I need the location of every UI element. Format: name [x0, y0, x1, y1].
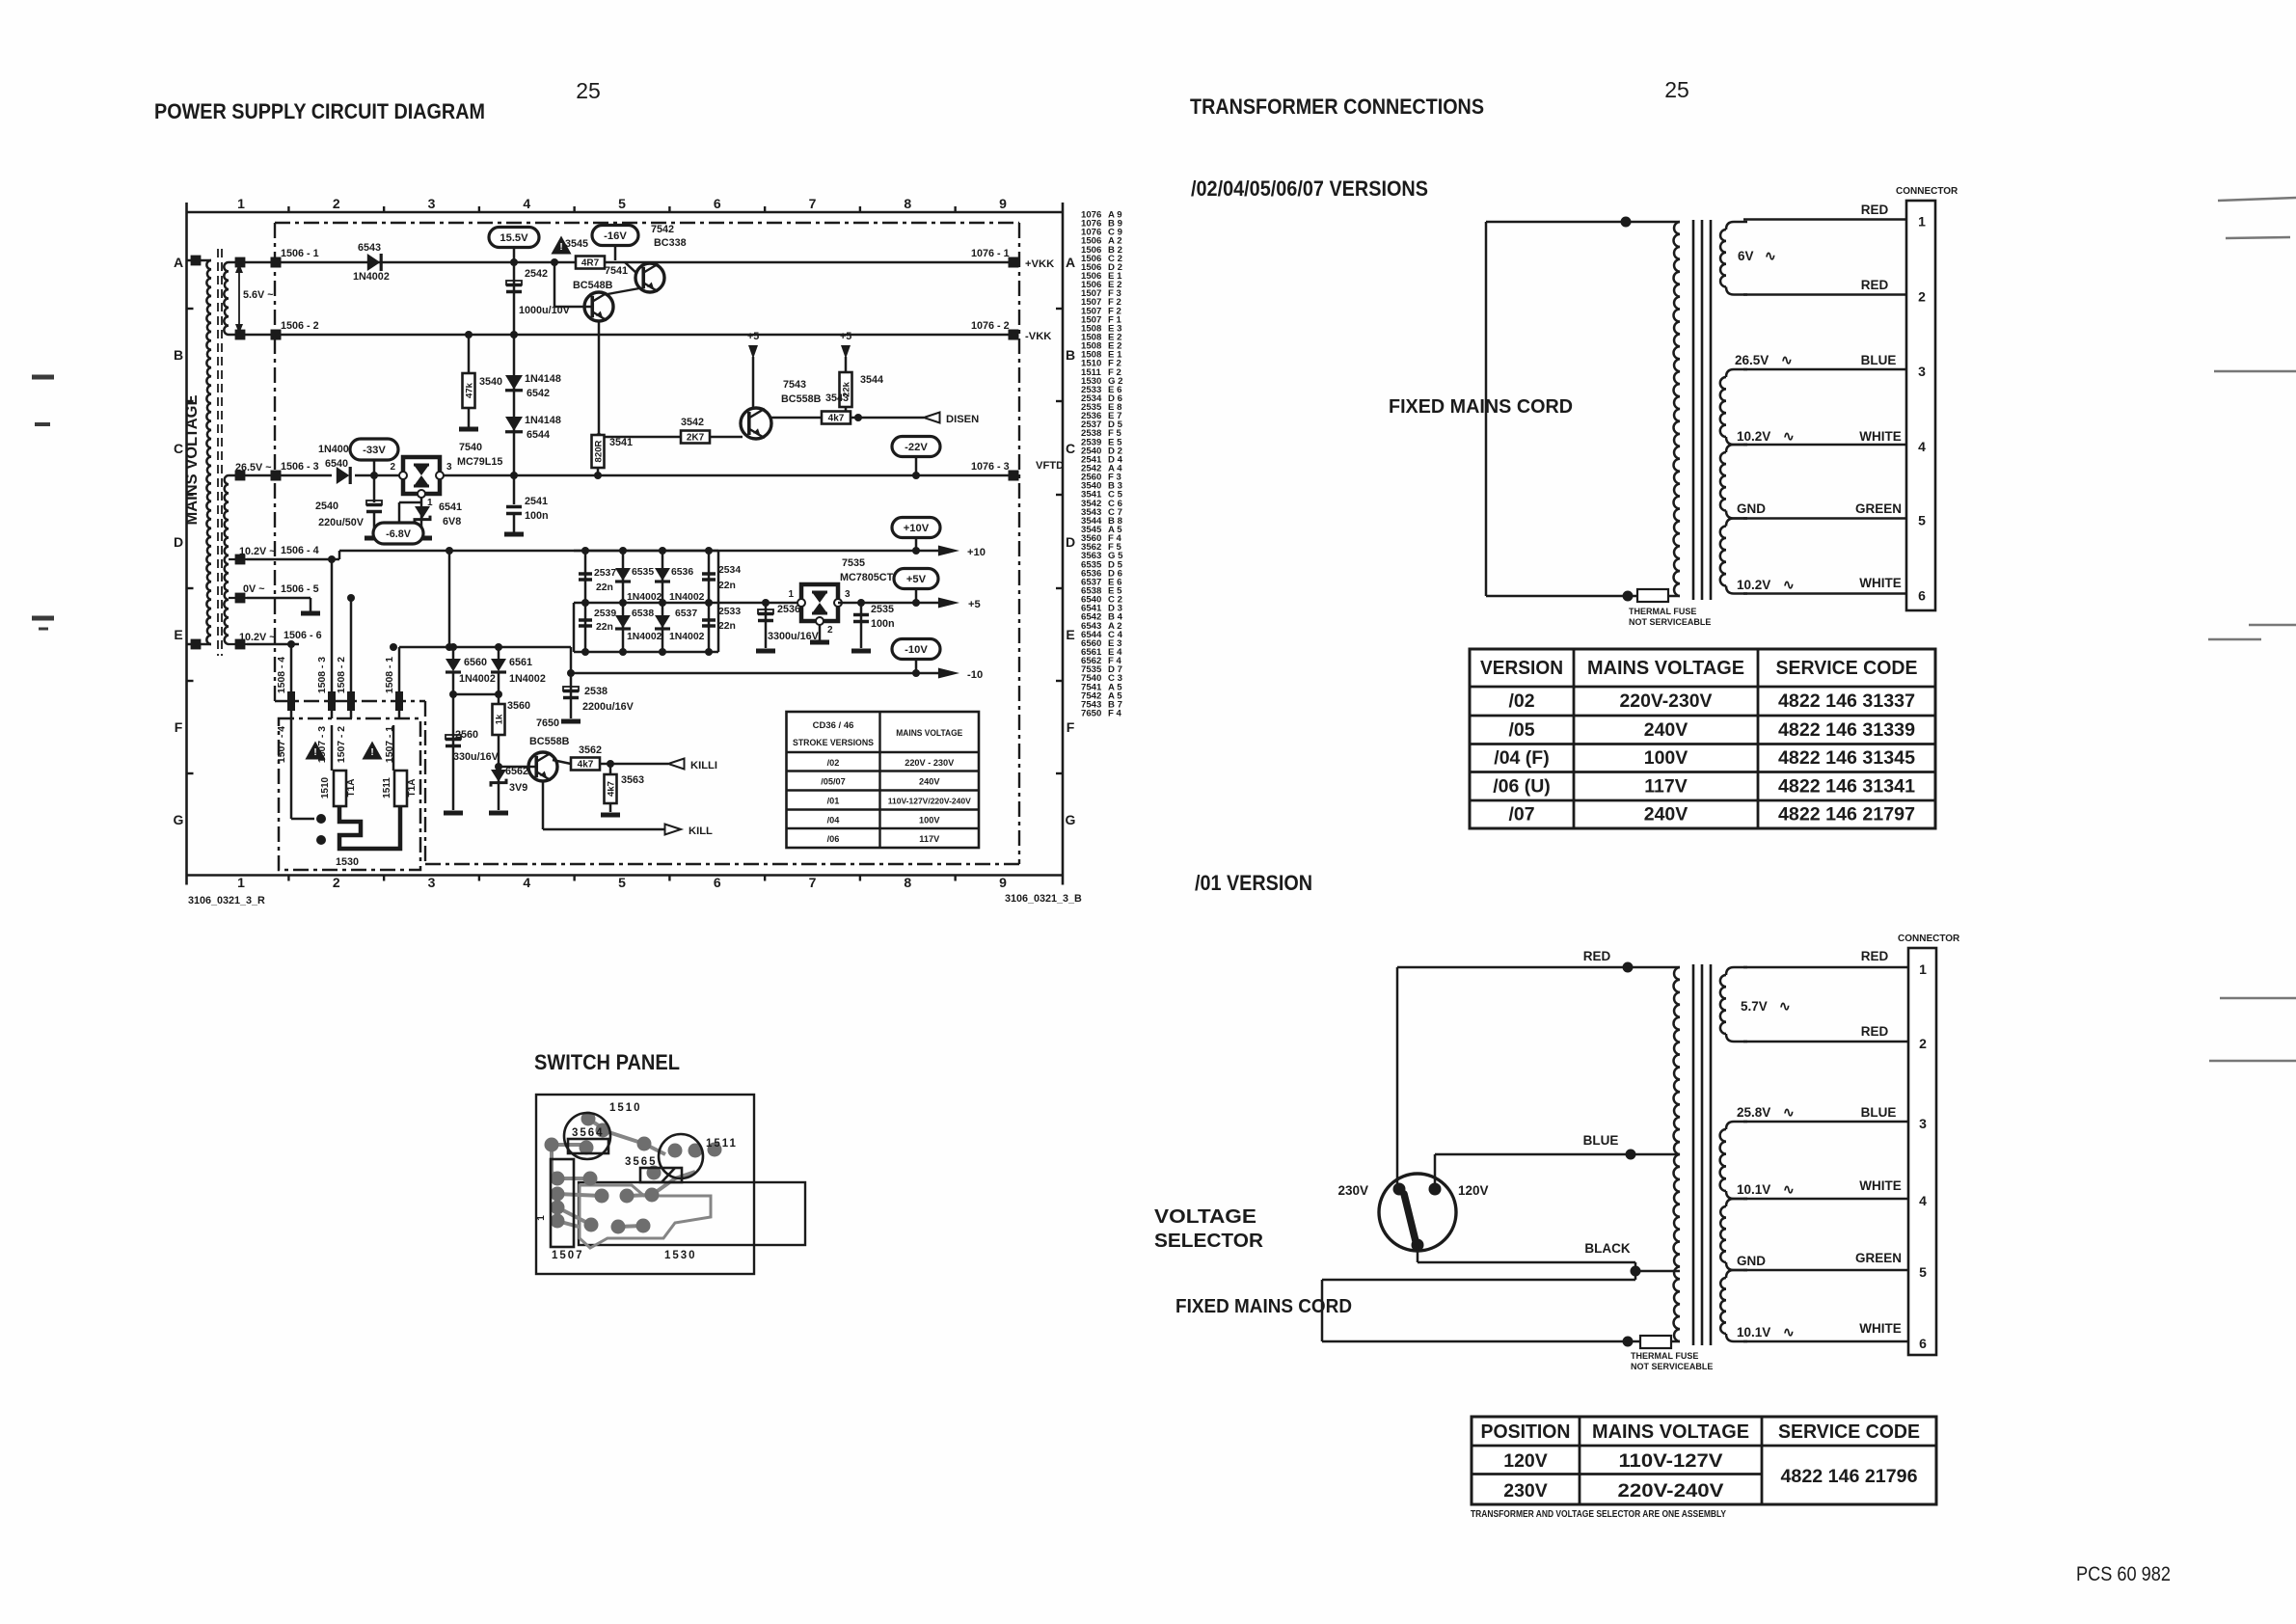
KILL output [543, 781, 713, 837]
svg-text:/02: /02 [1508, 690, 1534, 712]
svg-text:1507: 1507 [552, 1250, 584, 1261]
svg-text:117V: 117V [919, 834, 940, 844]
svg-text:120V: 120V [1458, 1183, 1489, 1198]
voltage callout 15.5V [489, 228, 539, 263]
svg-text:3106_0321_3_B: 3106_0321_3_B [1005, 893, 1082, 905]
svg-text:4822 146 31345: 4822 146 31345 [1778, 747, 1915, 769]
warning triangle row A [551, 235, 571, 254]
DISEN output [851, 413, 979, 426]
svg-text:2533: 2533 [718, 607, 741, 617]
svg-text:7542: 7542 [651, 224, 674, 235]
svg-text:1530: 1530 [664, 1250, 697, 1261]
svg-text:3: 3 [428, 875, 436, 890]
svg-text:/06 (U): /06 (U) [1493, 775, 1551, 797]
svg-text:6543: 6543 [358, 242, 381, 254]
thermal fuse (top) [1629, 589, 1711, 627]
svg-text:2200u/16V: 2200u/16V [582, 701, 635, 713]
svg-text:/07: /07 [1508, 804, 1534, 826]
svg-text:THERMAL FUSE: THERMAL FUSE [1631, 1351, 1698, 1361]
svg-text:BLUE: BLUE [1861, 353, 1897, 367]
switch contacts 1530 [291, 718, 400, 849]
svg-text:D: D [174, 534, 183, 550]
svg-text:+10: +10 [967, 547, 986, 558]
svg-text:22n: 22n [596, 622, 613, 633]
svg-text:1N4002: 1N4002 [669, 632, 705, 642]
svg-text:MAINS VOLTAGE: MAINS VOLTAGE [1592, 1421, 1749, 1443]
svg-text:0V ~: 0V ~ [243, 583, 265, 595]
transistor 7541 BC548B [551, 258, 639, 321]
svg-text:SELECTOR: SELECTOR [1154, 1231, 1264, 1252]
diode 6560 1N4002 [446, 657, 496, 685]
svg-text:BLUE: BLUE [1583, 1133, 1619, 1148]
svg-text:CD36 / 46: CD36 / 46 [813, 720, 854, 731]
svg-text:3564: 3564 [572, 1127, 605, 1139]
svg-text:BC558B: BC558B [529, 736, 570, 747]
svg-text:3: 3 [1919, 1116, 1927, 1131]
svg-text:1: 1 [536, 1215, 547, 1221]
svg-text:7543: 7543 [783, 379, 806, 391]
svg-text:3540: 3540 [479, 376, 502, 388]
svg-text:240V: 240V [919, 777, 940, 787]
voltage callout -6.8V [373, 523, 423, 544]
voltage callout +10V [892, 518, 940, 555]
svg-text:10.1V: 10.1V [1737, 1325, 1770, 1340]
svg-text:7535: 7535 [842, 557, 865, 569]
warning triangle fuse 1 [305, 741, 325, 759]
resistor 3545 4R7 [565, 238, 605, 269]
svg-text:26.5V ~: 26.5V ~ [235, 462, 272, 474]
svg-text:/02: /02 [827, 758, 840, 768]
5.6V measurement arrow [235, 263, 274, 334]
svg-text:4822 146 31341: 4822 146 31341 [1778, 775, 1915, 797]
svg-text:MAINS VOLTAGE: MAINS VOLTAGE [1587, 657, 1744, 679]
svg-text:4: 4 [523, 875, 530, 890]
voltage callout -33V [350, 439, 398, 479]
switch panel pcb outline [536, 1095, 754, 1274]
switch panel right outline rectangle [579, 1182, 805, 1245]
svg-text:5.7V: 5.7V [1741, 999, 1768, 1014]
svg-text:!: ! [559, 242, 562, 253]
svg-text:WHITE: WHITE [1859, 1178, 1902, 1193]
svg-text:7541: 7541 [605, 265, 628, 277]
svg-text:4822 146 21797: 4822 146 21797 [1778, 804, 1915, 826]
svg-text:2534: 2534 [718, 565, 741, 576]
svg-text:100n: 100n [525, 510, 549, 522]
wires 1508-4..1508-1 to mains switch [277, 555, 403, 718]
diode 6538 1N4002 [615, 609, 662, 642]
resistor 3543 4k7 [770, 392, 851, 424]
svg-text:5: 5 [618, 875, 626, 890]
resistor 3541 820R [592, 435, 634, 479]
svg-text:3563: 3563 [621, 774, 644, 786]
svg-text:220V-240V: 220V-240V [1618, 1480, 1724, 1502]
svg-text:VFTD: VFTD [1036, 460, 1064, 472]
zener 6541 6V8 [399, 498, 462, 538]
svg-text:MC7805CT: MC7805CT [840, 572, 894, 583]
svg-text:2: 2 [333, 196, 340, 211]
diode 6544 1N4148 [505, 415, 561, 441]
jumper circle 1510 [564, 1102, 642, 1159]
thermal fuse (/01) [1631, 1336, 1713, 1371]
svg-text:-VKK: -VKK [1025, 331, 1051, 342]
svg-text:3545: 3545 [565, 238, 588, 250]
svg-text:6: 6 [714, 875, 721, 890]
svg-text:9: 9 [999, 196, 1007, 211]
svg-text:3106_0321_3_R: 3106_0321_3_R [188, 895, 265, 907]
capacitor 2539 22n [579, 609, 616, 633]
transistor 7543 BC558B [741, 379, 822, 439]
svg-text:WHITE: WHITE [1859, 429, 1902, 444]
schematic frame border [187, 203, 1064, 885]
transistor 7650 BC558B [499, 717, 570, 781]
wire riser to diode pump [446, 547, 453, 647]
svg-text:2536: 2536 [777, 604, 800, 615]
voltage callout +5V [894, 569, 938, 608]
svg-text:6V8: 6V8 [443, 516, 461, 528]
svg-text:1506 - 6: 1506 - 6 [284, 630, 322, 641]
secondary windings (/01) [1720, 967, 1747, 1341]
svg-text:7: 7 [809, 196, 817, 211]
svg-text:6: 6 [714, 196, 721, 211]
svg-text:2K7: 2K7 [687, 433, 705, 444]
svg-text:5: 5 [618, 196, 626, 211]
jumper circle 1511 [659, 1134, 738, 1178]
svg-text:3: 3 [428, 196, 436, 211]
label VOLTAGE SELECTOR [1154, 1206, 1264, 1252]
svg-text:6560: 6560 [464, 657, 487, 668]
svg-text:1N4002: 1N4002 [627, 632, 662, 642]
+5 rail output [838, 598, 981, 610]
regulator 7535 MC7805CT [760, 557, 894, 642]
svg-text:4: 4 [1918, 439, 1926, 454]
svg-text:BLUE: BLUE [1861, 1105, 1897, 1120]
svg-text:26.5V: 26.5V [1735, 353, 1769, 367]
capacitor 2560 330u/16V [444, 694, 500, 813]
svg-text:10.2V ~: 10.2V ~ [239, 546, 276, 557]
component 3565 [625, 1156, 682, 1182]
svg-text:SERVICE CODE: SERVICE CODE [1776, 657, 1918, 679]
scan margin artifacts [32, 198, 2296, 1061]
svg-text:F: F [1067, 719, 1075, 735]
svg-text:4R7: 4R7 [581, 258, 600, 269]
svg-text:MAINS VOLTAGE: MAINS VOLTAGE [183, 394, 201, 525]
transformer core dashed separator [218, 249, 222, 656]
svg-text:15.5V: 15.5V [500, 232, 528, 244]
wire rail 1506-2 (-VKK row B) [247, 320, 1051, 342]
svg-text:7: 7 [809, 875, 817, 890]
svg-text:110V-127V/220V-240V: 110V-127V/220V-240V [888, 798, 972, 806]
svg-text:1N4002: 1N4002 [627, 592, 662, 603]
svg-text:22n: 22n [718, 621, 736, 632]
svg-text:MC79L15: MC79L15 [457, 456, 502, 468]
svg-text:4822 146 31339: 4822 146 31339 [1778, 719, 1915, 741]
KILLI output [600, 759, 717, 772]
voltage callout -10V [892, 639, 940, 678]
svg-text:-6.8V: -6.8V [386, 528, 412, 540]
svg-text:∿: ∿ [1765, 248, 1776, 263]
svg-text:E: E [174, 627, 182, 642]
svg-text:220u/50V: 220u/50V [318, 517, 365, 528]
diode 6535 1N4002 [615, 567, 662, 603]
svg-text:FIXED MAINS CORD: FIXED MAINS CORD [1389, 396, 1573, 418]
capacitor 2534 22n [702, 565, 741, 591]
svg-text:-10: -10 [967, 669, 983, 681]
svg-text:820R: 820R [593, 440, 604, 462]
svg-text:+5: +5 [747, 331, 759, 342]
table positions/service code (/01) [1472, 1417, 1936, 1504]
svg-text:1: 1 [1919, 961, 1927, 977]
svg-text:PCS 60 982: PCS 60 982 [2076, 1563, 2171, 1585]
svg-text:+5: +5 [840, 331, 851, 342]
svg-text:/05/07: /05/07 [821, 777, 846, 787]
svg-text:1N4002: 1N4002 [459, 673, 496, 685]
svg-text:1N4002: 1N4002 [509, 673, 546, 685]
voltage callout -16V [592, 226, 638, 261]
fixed mains cord loop (top transformer) [1486, 217, 1680, 602]
svg-text:!: ! [370, 747, 373, 758]
svg-text:B: B [174, 347, 183, 363]
svg-text:1076 - 3: 1076 - 3 [971, 461, 1010, 473]
svg-text:RED: RED [1861, 278, 1889, 292]
svg-text:1N4148: 1N4148 [525, 373, 561, 385]
primary winding (top transformer) [1674, 222, 1681, 596]
svg-text:1N4002: 1N4002 [353, 271, 390, 283]
svg-text:MAINS VOLTAGE: MAINS VOLTAGE [896, 728, 962, 739]
svg-text:1076 - 2: 1076 - 2 [971, 320, 1010, 332]
svg-text:RED: RED [1583, 949, 1611, 963]
svg-text:4k7: 4k7 [828, 414, 845, 424]
svg-text:6535: 6535 [632, 567, 654, 578]
svg-text:∿: ∿ [1783, 1324, 1795, 1340]
svg-text:BLACK: BLACK [1584, 1241, 1630, 1256]
svg-text:1506 - 4: 1506 - 4 [281, 545, 319, 556]
svg-text:110V-127V: 110V-127V [1619, 1450, 1723, 1472]
svg-text:2: 2 [333, 875, 340, 890]
svg-text:6541: 6541 [439, 501, 462, 513]
zener 6562 3V9 [489, 763, 528, 813]
svg-text:100n: 100n [871, 618, 895, 630]
svg-text:∿: ∿ [1783, 428, 1795, 444]
svg-text:∿: ∿ [1783, 577, 1795, 592]
svg-text:3: 3 [446, 462, 452, 473]
resistor 3544 22k with +5 [840, 331, 884, 418]
svg-text:6537: 6537 [675, 609, 697, 619]
svg-text:7540: 7540 [459, 442, 482, 453]
svg-text:2560: 2560 [455, 729, 478, 741]
svg-text:3: 3 [845, 589, 851, 600]
svg-text:/05: /05 [1508, 719, 1534, 741]
svg-text:/04 (F): /04 (F) [1494, 747, 1549, 769]
fuse 1510 T1A [320, 725, 357, 806]
capacitor 2537 22n [579, 568, 616, 593]
svg-text:220V-230V: 220V-230V [1620, 690, 1713, 712]
wire BLACK (/01) [1418, 1241, 1680, 1277]
diode 6540 1N4004 [318, 444, 355, 484]
svg-text:C: C [174, 441, 183, 456]
wire 1506-5 (0V) with ground [247, 583, 320, 613]
svg-text:1510: 1510 [320, 776, 331, 798]
svg-text:240V: 240V [1644, 719, 1688, 741]
svg-text:10.1V: 10.1V [1737, 1182, 1770, 1197]
table versions/service codes [1470, 649, 1935, 828]
svg-text:1076 - 1: 1076 - 1 [971, 248, 1010, 259]
transformer core (/01) [1693, 964, 1711, 1345]
voltage callout -22V [892, 437, 940, 480]
svg-text:240V: 240V [1644, 804, 1688, 826]
svg-text:NOT SERVICEABLE: NOT SERVICEABLE [1631, 1362, 1713, 1371]
svg-text:C: C [1066, 441, 1075, 456]
capacitor 2535 100n [851, 599, 895, 651]
svg-text:+VKK: +VKK [1025, 258, 1054, 270]
resistor 3560 1k [493, 694, 531, 767]
diode 6542 1N4148 [505, 331, 561, 475]
svg-text:GND: GND [1737, 501, 1766, 516]
svg-text:5: 5 [1918, 513, 1926, 528]
svg-text:RED: RED [1861, 949, 1889, 963]
svg-text:5: 5 [1919, 1264, 1927, 1280]
connector box (top) [1896, 186, 1958, 610]
svg-text:1506 - 2: 1506 - 2 [281, 320, 319, 332]
svg-text:220V - 230V: 220V - 230V [905, 758, 955, 768]
secondary winding B (26.5V tapped) [224, 471, 247, 650]
svg-text:1508 - 2: 1508 - 2 [337, 657, 347, 693]
svg-text:BC558B: BC558B [781, 393, 822, 405]
svg-text:2: 2 [390, 462, 395, 473]
secondary windings (top) [1720, 222, 1747, 594]
svg-text:/02/04/05/06/07 VERSIONS: /02/04/05/06/07 VERSIONS [1191, 176, 1428, 201]
transformer T mains primary winding [187, 256, 212, 650]
ruler column numbers bottom [237, 875, 1007, 890]
svg-text:CONNECTOR: CONNECTOR [1898, 934, 1960, 944]
svg-text:GREEN: GREEN [1855, 501, 1902, 516]
svg-text:25: 25 [1664, 77, 1689, 102]
svg-text:6540: 6540 [325, 458, 348, 470]
-10 rail row E [571, 668, 983, 681]
svg-text:POSITION: POSITION [1481, 1421, 1571, 1443]
pcb copper traces [552, 1119, 711, 1248]
svg-text:E: E [1066, 627, 1074, 642]
svg-text:VOLTAGE: VOLTAGE [1154, 1206, 1256, 1228]
resistor 3562 4k7 [553, 744, 602, 771]
svg-text:2542: 2542 [525, 268, 548, 280]
svg-text:1508 - 1: 1508 - 1 [385, 657, 395, 693]
svg-text:1506 - 5: 1506 - 5 [281, 583, 319, 595]
svg-text:10.2V: 10.2V [1737, 578, 1770, 592]
svg-text:7650F 4: 7650F 4 [1081, 709, 1122, 719]
svg-text:KILLI: KILLI [690, 760, 717, 771]
svg-text:3V9: 3V9 [509, 782, 527, 794]
svg-text:6538: 6538 [632, 609, 654, 619]
transformer core (top) [1693, 220, 1711, 600]
svg-text:F: F [175, 719, 183, 735]
svg-text:NOT SERVICEABLE: NOT SERVICEABLE [1629, 617, 1711, 627]
svg-text:1N4148: 1N4148 [525, 415, 561, 426]
svg-text:B: B [1066, 347, 1075, 363]
svg-text:KILL: KILL [689, 826, 713, 837]
svg-text:100V: 100V [919, 815, 940, 825]
svg-text:∿: ∿ [1783, 1104, 1795, 1120]
svg-text:RED: RED [1861, 203, 1889, 217]
svg-text:1: 1 [237, 875, 245, 890]
svg-text:+5: +5 [968, 599, 981, 610]
svg-text:330u/16V: 330u/16V [453, 751, 500, 763]
svg-text:DISEN: DISEN [946, 414, 979, 425]
svg-text:22n: 22n [596, 582, 613, 593]
capacitor 2538 2200u/16V [561, 669, 635, 721]
svg-text:2540: 2540 [315, 501, 338, 512]
wire 1506-4 row D [247, 545, 339, 559]
resistor 3540 47k with ground [459, 331, 502, 429]
wire 7541 emitter to 820R [598, 321, 601, 434]
svg-text:THERMAL FUSE: THERMAL FUSE [1629, 607, 1696, 616]
row letters left [174, 255, 194, 827]
ruler column numbers top [237, 196, 1007, 212]
secondary winding A (5.6V) [224, 257, 247, 340]
svg-text:G: G [1066, 812, 1076, 827]
svg-text:2: 2 [1919, 1036, 1927, 1051]
svg-text:2538: 2538 [584, 686, 608, 697]
svg-text:BC338: BC338 [654, 237, 687, 249]
svg-text:STROKE VERSIONS: STROKE VERSIONS [793, 738, 874, 748]
svg-text:TRANSFORMER CONNECTIONS: TRANSFORMER CONNECTIONS [1190, 95, 1484, 119]
mains switch assembly dash-dot box 1530 [279, 718, 420, 870]
svg-text:1511: 1511 [706, 1138, 738, 1150]
svg-text:1: 1 [237, 196, 245, 211]
capacitor 2540 220u/50V [315, 475, 384, 538]
svg-text:WHITE: WHITE [1859, 576, 1902, 590]
regulator 7540 MC79L15 [390, 442, 502, 508]
svg-text:230V: 230V [1503, 1480, 1548, 1502]
diode 6561 1N4002 [491, 657, 546, 685]
svg-text:25: 25 [576, 78, 601, 103]
svg-text:∿: ∿ [1781, 352, 1793, 367]
winding labels (/01) [1737, 949, 1902, 1340]
svg-text:1506 - 1: 1506 - 1 [281, 248, 319, 259]
svg-text:1k: 1k [494, 714, 504, 724]
svg-text:T1A: T1A [407, 779, 418, 798]
capacitor 2541 100n [504, 472, 549, 534]
svg-text:BC548B: BC548B [573, 280, 613, 291]
svg-text:3565: 3565 [625, 1156, 658, 1168]
diode 6543 1N4002 [353, 242, 390, 283]
svg-text:6561: 6561 [509, 657, 532, 668]
svg-text:RED: RED [1861, 1024, 1889, 1039]
wire rail 1506-3 (VFTD row C) [247, 460, 1064, 481]
svg-text:10.2V: 10.2V [1737, 429, 1770, 444]
connector box (/01) [1898, 934, 1960, 1355]
capacitor 2533 22n [702, 607, 741, 632]
svg-text:7650: 7650 [536, 717, 559, 729]
svg-text:3543: 3543 [825, 392, 849, 404]
svg-text:4: 4 [523, 196, 530, 211]
resistor 3542 2K7 [595, 417, 743, 444]
svg-text:1508 - 3: 1508 - 3 [317, 657, 328, 693]
svg-text:2: 2 [1918, 289, 1926, 305]
svg-text:FIXED MAINS CORD: FIXED MAINS CORD [1175, 1296, 1352, 1317]
rectifier block rails [574, 547, 760, 656]
diode 6536 1N4002 [655, 567, 705, 603]
svg-text:3: 3 [1918, 364, 1926, 379]
svg-text:10.2V ~: 10.2V ~ [239, 632, 276, 643]
+5 supply arrow to 7543 [747, 331, 759, 408]
svg-text:2535: 2535 [871, 604, 894, 615]
wire RED primary (/01) [1397, 949, 1680, 1189]
wire 1506-6 row E [247, 630, 322, 644]
svg-text:6: 6 [1918, 588, 1926, 604]
svg-text:-33V: -33V [363, 445, 386, 456]
svg-text:-16V: -16V [604, 230, 627, 242]
svg-text:4822 146 21796: 4822 146 21796 [1781, 1466, 1918, 1487]
